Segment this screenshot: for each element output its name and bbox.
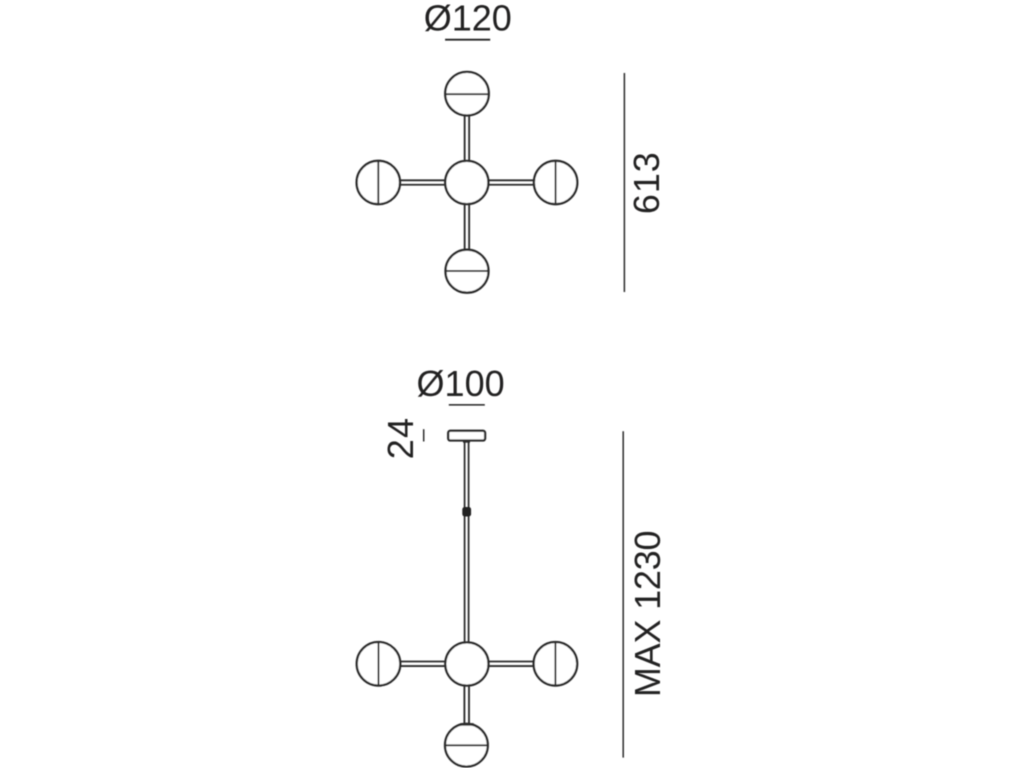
canopy stem nub bbox=[463, 440, 470, 442]
underline under Ø100 bbox=[449, 404, 485, 406]
ceiling canopy bbox=[448, 431, 485, 441]
front arm left (double line) bbox=[380, 662, 467, 667]
arm right (double line) bbox=[467, 180, 554, 184]
front center hub circle bbox=[445, 642, 488, 685]
front arm down (double line) bbox=[464, 664, 469, 745]
arm up (double line) bbox=[465, 96, 470, 183]
left sphere bbox=[357, 161, 400, 204]
nub where stem meets bottom sphere bbox=[460, 723, 473, 726]
svg-text:Ø120: Ø120 bbox=[424, 0, 512, 39]
svg-text:613: 613 bbox=[626, 151, 667, 214]
top sphere bbox=[445, 72, 489, 116]
center hub circle bbox=[445, 161, 488, 204]
svg-text:24: 24 bbox=[380, 417, 421, 459]
front arm right (double line) bbox=[467, 662, 554, 667]
front left sphere bbox=[357, 642, 401, 686]
stem (double line) bbox=[465, 441, 469, 665]
front right sphere bbox=[534, 642, 578, 686]
dimension line 613 bbox=[623, 73, 625, 292]
dimension line MAX 1230 bbox=[622, 431, 624, 757]
right sphere bbox=[534, 161, 577, 204]
underline under Ø120 bbox=[445, 39, 490, 41]
bottom sphere bbox=[446, 250, 489, 293]
front bottom sphere bbox=[445, 724, 488, 767]
arm left (double line) bbox=[380, 180, 467, 184]
cable connector bbox=[462, 507, 471, 517]
svg-text:Ø100: Ø100 bbox=[417, 363, 505, 404]
arm down (double line) bbox=[465, 183, 470, 270]
tick line for 24 bbox=[423, 429, 425, 441]
svg-text:MAX 1230: MAX 1230 bbox=[627, 531, 668, 698]
